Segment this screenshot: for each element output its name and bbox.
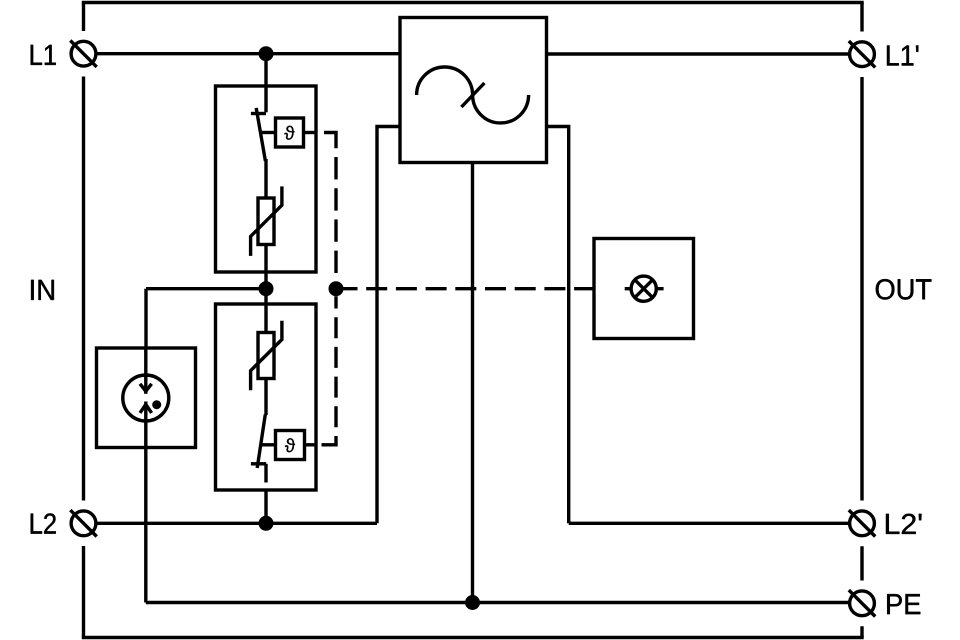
terminal L1 [70, 41, 96, 67]
wire dashed link from F1 theta to junction [324, 133, 336, 149]
wire fixed contact stub (F2) [264, 464, 267, 483]
wire L1 row: filter box to terminal L1' [547, 52, 849, 55]
junction node on L2 row at varistor branch [259, 516, 274, 531]
wire GDT to PE row [144, 448, 147, 603]
wire top border of device outline [82, 1, 864, 4]
wire PE row to terminal PE [146, 601, 849, 604]
terminal L2 [70, 510, 96, 536]
spark gap module F3 enclosure [97, 348, 196, 448]
wire blade to theta box (F1) [261, 131, 276, 134]
wire right border segments (gaps at terminals L1', L2', PE) [860, 3, 863, 638]
junction node on L1 at top of varistor branch [259, 46, 274, 61]
varistor/thermal-disconnect module F1 enclosure [216, 86, 317, 272]
lamp H1 cross strokes [635, 280, 653, 298]
wire blade to varistor (F1) [264, 159, 267, 198]
terminal PE [849, 590, 875, 616]
wire bottom border of device outline [82, 636, 864, 639]
wire from L1 junction down to upper protection module [264, 54, 267, 86]
filter sine symbol (U1) [417, 67, 529, 123]
label OUT [876, 279, 932, 300]
wire theta box to module edge (F2) [305, 443, 317, 446]
varistor/thermal-disconnect module F2 enclosure [216, 304, 317, 490]
wire L2 riser to filter lower-left pin [377, 127, 400, 524]
wire filter lower-right pin to L2' riser [547, 127, 569, 524]
wire GDT top electrode [144, 348, 147, 394]
wire dashed link from junction to lamp H1 [337, 287, 595, 290]
label ϑ (F2) [285, 438, 295, 452]
filter module U1 enclosure [400, 18, 547, 163]
label PE [887, 594, 920, 614]
terminal L1' [849, 41, 875, 67]
wire IN row to spark-gap branch [146, 287, 266, 290]
wire theta box to module edge (F1) [304, 131, 317, 134]
varistor RV1 body [258, 198, 274, 245]
arrowhead down (GDT top electrode) [140, 384, 152, 391]
wire dashed link from F2 theta to junction [322, 439, 337, 445]
indicator lamp module H1 enclosure [594, 239, 694, 339]
wire F1 top pin [264, 86, 267, 112]
arrowhead up (GDT bottom electrode) [140, 404, 152, 413]
terminal L2' [849, 510, 875, 536]
wire filter ground pin to PE row [471, 163, 474, 603]
wire L1 row: terminal L1 to filter box [97, 52, 400, 55]
wire F2 top pin [264, 304, 267, 333]
label IN [31, 280, 54, 300]
switch blade (F2 thermal disconnector) [257, 415, 265, 469]
wire down to spark gap module [144, 289, 147, 348]
filter slash stroke (U1) [461, 83, 484, 107]
label L1 [31, 45, 56, 65]
wire left border segments (gaps at terminals L1, L2) [82, 3, 85, 638]
varistor RV1 diagonal stroke [251, 186, 282, 256]
label ϑ (F1) [284, 126, 294, 140]
wire L2' row to terminal L2' [569, 522, 849, 525]
wire F1 bottom pin [264, 245, 267, 273]
wire GDT bottom electrode [144, 402, 147, 448]
thermal sensor box ϑ (F1) [276, 118, 304, 147]
varistor RV2 diagonal stroke [251, 321, 282, 391]
junction node on PE row below filter [465, 595, 480, 610]
wire varistor to blade (F2) [264, 379, 267, 416]
junction node IN row at varistor branch [259, 281, 274, 296]
label L2' [886, 514, 922, 534]
thermal sensor box ϑ (F2) [276, 431, 305, 460]
switch fixed contact tick (F2 thermal disconnector) [251, 462, 266, 465]
wire F2 bottom pin to L2 row [264, 490, 267, 523]
gas-filled indicator dot (GDT) [152, 400, 161, 409]
label L2 [31, 513, 56, 533]
label L1' [887, 46, 918, 66]
switch fixed contact tick (F1 thermal disconnector) [251, 112, 266, 115]
wire blade to theta box (F2) [261, 443, 276, 446]
varistor RV2 body [258, 333, 274, 379]
lamp H1 leads [625, 287, 664, 290]
gas discharge tube GDT circle (F3) [123, 375, 169, 421]
junction node on dashed trip-signal link [329, 281, 344, 296]
wire between modules through IN node [264, 272, 267, 304]
wire L2 row: terminal L2 to riser [97, 522, 377, 525]
lamp H1 circle [631, 276, 656, 301]
switch blade (F1 thermal disconnector) [256, 108, 265, 161]
